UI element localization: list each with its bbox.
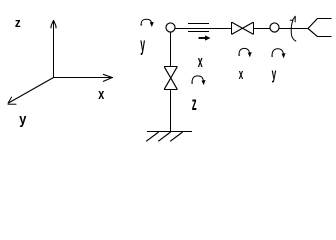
roll rotation arrow: [290, 16, 296, 41]
joint circle 2: [270, 23, 279, 32]
rotation arc y (below circle2): [271, 49, 285, 57]
prismatic lower line: [188, 31, 209, 33]
vertical link lower: [170, 90, 172, 132]
rotation arc x (below horizontal bowtie): [238, 48, 251, 56]
svg-text:y: y: [140, 36, 145, 57]
gripper end effector: [317, 18, 332, 20]
ground hatch 3: [170, 132, 182, 141]
link bowtie to circle2: [254, 28, 271, 30]
ground hatch 1: [146, 132, 158, 141]
svg-text:z: z: [192, 94, 197, 115]
prismatic upper line: [188, 23, 209, 25]
joint circle 1: [166, 23, 175, 32]
link circle2 to gripper: [279, 28, 308, 30]
svg-text:x: x: [198, 52, 203, 71]
svg-text:x: x: [98, 85, 105, 102]
x axis: [54, 77, 113, 79]
translation arrow: [199, 35, 211, 40]
vertical link upper: [170, 32, 172, 66]
main horizontal link: [175, 28, 231, 30]
rotation arc y (top-left): [140, 19, 153, 25]
svg-text:y: y: [272, 64, 277, 83]
y axis: [8, 78, 54, 105]
x axis arrowhead: [103, 74, 112, 81]
bowtie joint horizontal: [231, 22, 233, 35]
bowtie joint vertical: [164, 66, 178, 68]
y axis arrowhead: [8, 103, 17, 105]
z axis arrowhead: [51, 20, 56, 28]
svg-text:x: x: [239, 65, 244, 82]
svg-text:z: z: [15, 15, 21, 30]
z axis: [53, 20, 55, 78]
svg-text:y: y: [19, 110, 26, 127]
rotation arc x (beside vertical link): [191, 76, 205, 84]
ground hatch 2: [158, 132, 170, 141]
ground symbol baseline: [147, 131, 192, 133]
